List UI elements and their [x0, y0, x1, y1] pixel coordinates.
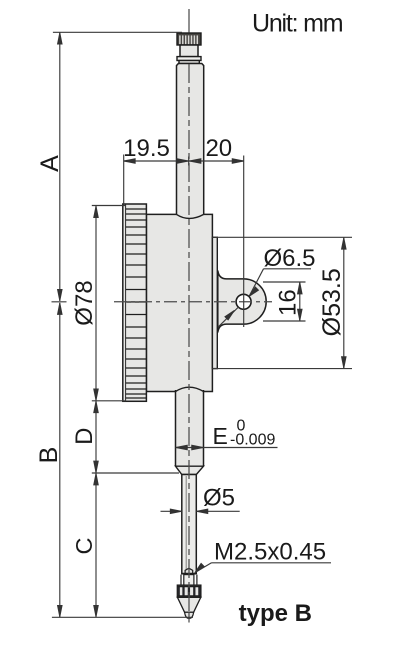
svg-text:19.5: 19.5	[123, 135, 170, 162]
cap (knurled top cap)	[177, 33, 201, 45]
dim line dia78	[95, 206, 97, 401]
arrow dia53.5 top	[342, 238, 347, 250]
dia53.5 bottom ext	[212, 368, 352, 370]
dim line 16	[299, 282, 301, 321]
centerline horizontal (lug hole axis)	[52, 301, 273, 303]
arrow C top	[94, 473, 99, 485]
arrow D bottom	[94, 461, 99, 473]
16 top ext	[263, 281, 306, 283]
svg-text:16: 16	[274, 289, 301, 316]
spindle	[182, 475, 197, 574]
arrow dia5 right	[196, 509, 208, 514]
16 bottom ext	[263, 320, 306, 322]
dia6.5 underline	[264, 268, 312, 270]
dim line A	[59, 32, 61, 300]
19.5/20 right ext / hole axis	[243, 156, 245, 328]
dia78 bottom ext	[92, 400, 126, 402]
body (dial case side view)	[146, 214, 212, 391]
svg-text:A: A	[36, 155, 64, 172]
dim line C	[95, 473, 97, 617]
sleeve shoulder arc	[176, 387, 204, 391]
arrow 20 right	[232, 159, 244, 164]
stud side ledges	[180, 575, 182, 586]
arrow 16 bottom	[298, 309, 303, 321]
lug (mounting ear)	[218, 271, 266, 333]
svg-text:-0.009: -0.009	[230, 431, 275, 448]
arrow dia78 top	[94, 206, 99, 218]
arrow 16 top	[298, 282, 303, 294]
svg-text:Ø5: Ø5	[203, 485, 235, 512]
dim line B	[59, 303, 61, 617]
back cover	[212, 237, 217, 368]
flange ring	[179, 61, 199, 64]
arrow dia78 bottom	[94, 389, 99, 401]
arrow dia6.5 upper	[249, 287, 259, 297]
svg-text:Ø53.5: Ø53.5	[318, 268, 346, 336]
contact tip ball	[185, 612, 194, 618]
svg-text:20: 20	[205, 135, 232, 162]
upper stem	[177, 64, 204, 217]
dim line dia53.5	[343, 237, 345, 368]
dia6.5 leader	[249, 269, 264, 297]
arrow 20 left	[189, 159, 201, 164]
stem-body fillet arc	[177, 214, 204, 218]
dia5 dim line left	[161, 510, 182, 512]
svg-text:M2.5x0.45: M2.5x0.45	[214, 539, 326, 566]
contact stud (threaded M2.5)	[185, 568, 193, 573]
svg-text:Ø6.5: Ø6.5	[263, 245, 315, 272]
arrow E left	[176, 445, 188, 450]
dim line 19.5/20	[124, 160, 244, 162]
svg-text:D: D	[71, 428, 98, 445]
stud thread section	[184, 575, 194, 586]
cap neck	[180, 45, 198, 57]
M2.5 leader	[196, 563, 212, 573]
arrow D top	[94, 401, 99, 413]
svg-text:Ø78: Ø78	[71, 280, 98, 325]
flange disc	[177, 57, 201, 61]
dia78 top ext	[92, 205, 126, 207]
svg-text:Unit: mm: Unit: mm	[252, 10, 343, 38]
dia5 dim line right	[196, 510, 239, 512]
svg-text:B: B	[35, 447, 63, 464]
D bottom ext	[92, 472, 179, 474]
dimension lines	[52, 32, 352, 617]
arrow M2.5	[195, 563, 205, 573]
arrow A bottom	[58, 289, 63, 301]
bottom extension line	[52, 616, 193, 618]
bezel (knurled rim, side view)	[123, 204, 147, 401]
arrow E right	[192, 445, 204, 450]
contact point cone	[177, 597, 200, 612]
dim line E	[176, 447, 278, 449]
arrow A top	[58, 33, 63, 45]
arrow B bottom	[58, 606, 63, 618]
center tick on dim line	[188, 157, 190, 166]
svg-text:E: E	[213, 423, 228, 449]
arrow 19.5 left	[124, 159, 136, 164]
arrow dia6.5 lower	[225, 310, 235, 320]
M2.5 underline	[212, 562, 332, 564]
spindle reflection line	[185, 476, 187, 570]
arrow dia53.5 bottom	[342, 357, 347, 369]
svg-text:C: C	[71, 537, 97, 554]
svg-text:type B: type B	[239, 600, 312, 627]
arrow dia5 left	[170, 509, 182, 514]
arrowheads	[58, 33, 347, 617]
dim line D	[95, 401, 97, 473]
sleeve taper	[176, 466, 204, 474]
arrow B top	[58, 303, 63, 315]
dia53.5 top ext	[212, 236, 352, 238]
19.5/20 left ext	[123, 155, 125, 205]
knurled nut	[177, 585, 200, 597]
top extension line	[53, 31, 182, 33]
lug hole	[236, 294, 251, 309]
arrow C bottom	[94, 605, 99, 617]
dia6.5 leader tail	[218, 307, 239, 327]
arrow 19.5 right	[177, 159, 189, 164]
centerline vertical (spindle axis)	[188, 9, 190, 623]
lower sleeve (stem below body)	[176, 387, 204, 466]
spindle end edge	[181, 573, 196, 575]
